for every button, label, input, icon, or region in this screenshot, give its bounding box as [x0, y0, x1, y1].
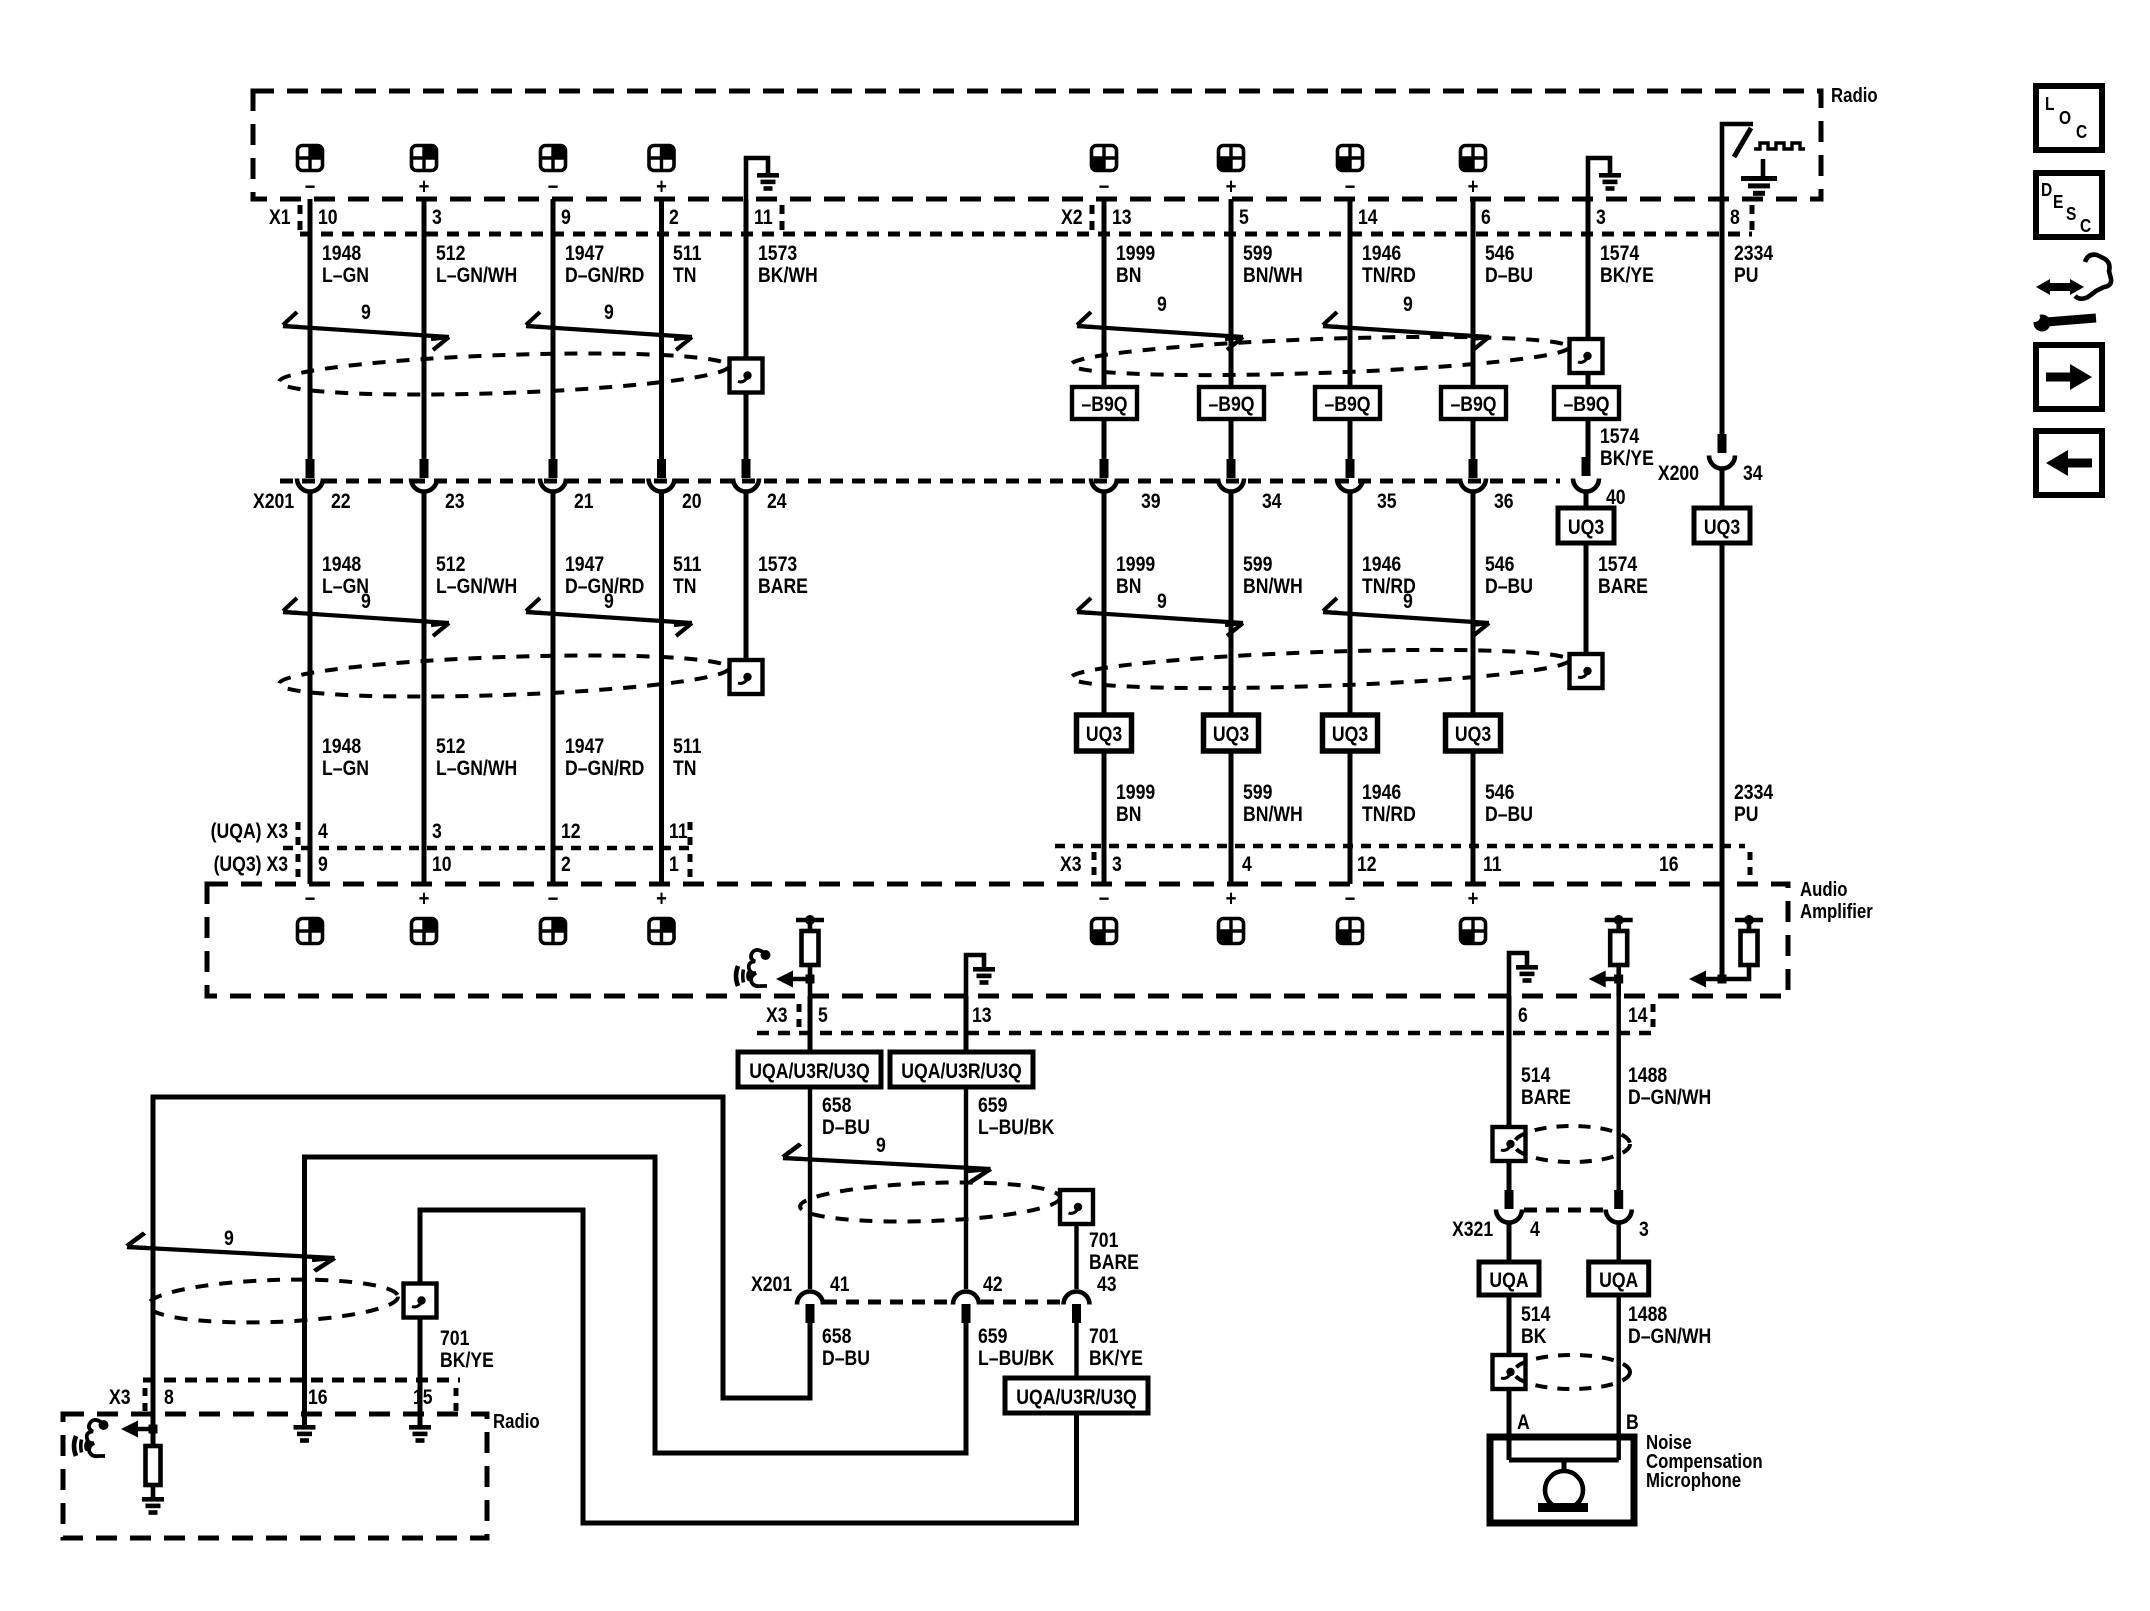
- svg-text:3: 3: [1639, 1218, 1649, 1242]
- svg-text:35: 35: [1377, 490, 1397, 514]
- twisted label 9: [361, 590, 371, 614]
- svg-text:O: O: [2059, 108, 2071, 129]
- wire 514 to X321: [1507, 1161, 1512, 1190]
- shield square on 514 upper: [1493, 1127, 1526, 1161]
- Radio box dashed border: [253, 91, 1821, 199]
- shield drain square row1 left: [730, 359, 763, 393]
- wire 1946 TN/RD mid: [1348, 493, 1353, 884]
- wire 1999 BN mid: [1102, 493, 1107, 884]
- svg-text:13: 13: [1112, 206, 1132, 230]
- speaker pin icon X1-3: [412, 146, 437, 171]
- svg-text:16: 16: [1659, 853, 1679, 877]
- svg-text:1573: 1573: [758, 553, 797, 577]
- wire 658 mid: [808, 1087, 812, 1289]
- svg-text:1999: 1999: [1116, 553, 1155, 577]
- right arrow box: [2036, 345, 2102, 409]
- svg-text:X201: X201: [751, 1273, 792, 1297]
- X3 bottom separator: [797, 1004, 802, 1030]
- svg-text:11: 11: [669, 820, 688, 844]
- svg-text:39: 39: [1141, 490, 1161, 514]
- svg-text:+: +: [1226, 176, 1237, 200]
- svg-text:TN: TN: [673, 264, 696, 288]
- shield ellipse row1 left: [278, 347, 729, 401]
- svg-text:D–BU: D–BU: [1485, 803, 1533, 827]
- svg-text:512: 512: [436, 242, 465, 266]
- amp element pin 16 (2334 PU input): [1689, 915, 1763, 988]
- X3 bottom pin numbers: [818, 1004, 1648, 1028]
- Radio label: [1831, 84, 1878, 107]
- bottom left X3 row dotted line: [143, 1378, 460, 1383]
- svg-text:9: 9: [604, 590, 614, 614]
- svg-text:1999: 1999: [1116, 781, 1155, 805]
- svg-text:1488: 1488: [1628, 1064, 1667, 1088]
- svg-text:TN/RD: TN/RD: [1362, 803, 1416, 827]
- svg-text:−: −: [1099, 176, 1110, 200]
- svg-text:14: 14: [1628, 1004, 1648, 1028]
- X201 pin numbers: [331, 486, 1626, 514]
- twisted pair 658/659: [783, 1144, 991, 1182]
- svg-text:1946: 1946: [1362, 242, 1401, 266]
- svg-text:X3: X3: [766, 1004, 788, 1028]
- wire 2334 PU upper: [1720, 199, 1725, 437]
- svg-text:BK: BK: [1521, 1325, 1546, 1349]
- wire 512 L-GN/WH upper: [422, 199, 427, 460]
- wire 1573 BK/WH upper: [744, 199, 749, 460]
- svg-text:5: 5: [1239, 206, 1249, 230]
- svg-text:9: 9: [224, 1227, 234, 1251]
- X1 row end separator: [780, 205, 785, 232]
- svg-text:6: 6: [1481, 206, 1491, 230]
- svg-text:+: +: [1226, 888, 1237, 912]
- X321 label: [1452, 1218, 1493, 1242]
- svg-text:1948: 1948: [322, 242, 361, 266]
- UQA box on 514: [1479, 1262, 1539, 1295]
- (UQA) row separators: [298, 822, 690, 845]
- svg-text:659: 659: [978, 1325, 1008, 1349]
- svg-text:1574: 1574: [1600, 242, 1639, 266]
- right X3 label: [1060, 853, 1082, 877]
- X2 separator: [1090, 205, 1095, 232]
- svg-text:8: 8: [164, 1386, 174, 1410]
- wire 2334 PU mid: [1720, 468, 1725, 884]
- svg-text:(UQ3) X3: (UQ3) X3: [214, 853, 289, 877]
- svg-text:BN: BN: [1116, 264, 1141, 288]
- svg-text:D: D: [2041, 180, 2052, 201]
- svg-text:659: 659: [978, 1094, 1008, 1118]
- svg-text:L–GN/WH: L–GN/WH: [436, 264, 517, 288]
- switch to ground with pulse signal (radio X2-8): [1722, 124, 1805, 200]
- svg-text:12: 12: [1357, 853, 1377, 877]
- twisted label 9: [1403, 293, 1413, 317]
- X201 bottom dashed segments: [824, 1300, 1062, 1305]
- shield drain square row2 right: [1570, 654, 1603, 688]
- X321 stubs and cups: [1505, 1190, 1514, 1209]
- svg-text:L–GN/WH: L–GN/WH: [436, 575, 517, 599]
- shield square on 514 lower: [1493, 1355, 1526, 1389]
- twisted pair symbol row2 pair4: [1323, 598, 1489, 636]
- UQ3 box on wire 1574: [1558, 508, 1614, 543]
- UQA/U3R/U3Q box on 658: [738, 1052, 881, 1087]
- svg-text:546: 546: [1485, 553, 1515, 577]
- svg-text:1946: 1946: [1362, 781, 1401, 805]
- twisted pair symbol row2 pair1: [283, 598, 449, 636]
- svg-text:+: +: [419, 176, 430, 200]
- speaker pin icon X2-13: [1092, 146, 1117, 171]
- shield ellipse row2 left: [278, 649, 729, 703]
- svg-text:4: 4: [1530, 1218, 1540, 1242]
- handset icon amp: [736, 950, 771, 986]
- wire 1946 TN/RD upper: [1348, 199, 1353, 460]
- X200 connector: [1658, 434, 1763, 485]
- X2 pin numbers: [1112, 206, 1740, 230]
- X201-42 cup and stub: [953, 1292, 979, 1305]
- LOC box: [2036, 86, 2102, 150]
- svg-text:PU: PU: [1734, 264, 1758, 288]
- wire 1488 lower: [1616, 1295, 1620, 1460]
- ground symbol radio X1-11: [746, 158, 779, 200]
- label 659 L-BU/BK lower: [978, 1325, 1054, 1371]
- ground symbol radio X2-3: [1588, 158, 1621, 200]
- right X3 end separator: [1748, 852, 1753, 878]
- wrench and arrow icon: [2030, 255, 2111, 332]
- twisted pair symbol row1 pair4: [1323, 312, 1489, 350]
- X201 dashed row line: [280, 479, 1560, 484]
- svg-text:4: 4: [1242, 853, 1252, 877]
- (UQA) X3 row label: [211, 820, 289, 844]
- wire 599 BN/WH upper: [1229, 199, 1234, 460]
- X3 label bottom left: [109, 1386, 131, 1410]
- label 658 D-BU lower: [822, 1325, 870, 1371]
- svg-text:701: 701: [440, 1327, 470, 1351]
- svg-text:701: 701: [1089, 1229, 1119, 1253]
- wire 701 route to radio X3-15: [420, 1210, 1077, 1523]
- svg-text:658: 658: [822, 1325, 852, 1349]
- svg-text:D–BU: D–BU: [822, 1347, 870, 1371]
- svg-text:11: 11: [1483, 853, 1502, 877]
- wire 1947 D-GN/RD mid: [551, 493, 556, 884]
- shield ellipse 514/1488 lower: [1514, 1355, 1630, 1389]
- amp speaker icons: [298, 919, 323, 944]
- svg-text:UQ3: UQ3: [1568, 516, 1604, 540]
- X3 separator bottom left: [143, 1388, 148, 1412]
- svg-text:511: 511: [673, 242, 702, 266]
- svg-text:BK/YE: BK/YE: [1600, 264, 1654, 288]
- svg-text:UQ3: UQ3: [1332, 723, 1368, 747]
- X201-43 cup and stub: [1064, 1292, 1090, 1305]
- svg-text:UQA/U3R/U3Q: UQA/U3R/U3Q: [749, 1060, 869, 1084]
- svg-text:BN/WH: BN/WH: [1243, 803, 1303, 827]
- X2 row end separator: [1750, 205, 1755, 232]
- svg-text:20: 20: [682, 490, 702, 514]
- wire 658 route to radio X3-8: [153, 1097, 810, 1424]
- Radio label bottom left: [493, 1410, 540, 1433]
- svg-text:L–GN: L–GN: [322, 757, 369, 781]
- Noise Compensation Microphone box: [1490, 1437, 1634, 1523]
- svg-text:C: C: [2076, 122, 2087, 143]
- svg-text:+: +: [1468, 176, 1479, 200]
- svg-text:9: 9: [361, 301, 371, 325]
- svg-text:X3: X3: [1060, 853, 1082, 877]
- svg-text:1946: 1946: [1362, 553, 1401, 577]
- wire 1948 L-GN upper: [308, 199, 313, 460]
- (UQA) X3 pin numbers: [318, 820, 688, 844]
- DESC box: [2036, 173, 2102, 237]
- svg-text:−: −: [548, 176, 559, 200]
- wire labels row 2: [322, 553, 369, 599]
- handset icon radio: [74, 1420, 109, 1456]
- svg-text:9: 9: [876, 1134, 886, 1158]
- polarity marks top row: [305, 176, 1479, 200]
- X3 bottom end separator: [1651, 1004, 1656, 1030]
- svg-text:BARE: BARE: [1089, 1251, 1139, 1275]
- X3 pins 8 16 15: [164, 1386, 433, 1410]
- wire 1947 D-GN/RD upper: [551, 199, 556, 460]
- svg-text:BN: BN: [1116, 803, 1141, 827]
- wire 514 to UQA: [1507, 1224, 1512, 1262]
- twisted pair 658/659 bottom left: [127, 1233, 335, 1271]
- wire 1573 BARE mid: [744, 493, 749, 661]
- speaker pin icon X2-5: [1219, 146, 1244, 171]
- svg-text:X3: X3: [109, 1386, 131, 1410]
- svg-text:C: C: [2080, 216, 2091, 237]
- svg-text:UQA/U3R/U3Q: UQA/U3R/U3Q: [901, 1060, 1021, 1084]
- svg-text:X1: X1: [269, 206, 291, 230]
- svg-text:UQ3: UQ3: [1213, 723, 1249, 747]
- svg-text:12: 12: [561, 820, 581, 844]
- (UQ3) row separators: [298, 854, 690, 878]
- svg-text:14: 14: [1358, 206, 1378, 230]
- left arrow box: [2036, 431, 2102, 495]
- amp polarity marks: [305, 888, 1479, 912]
- svg-text:599: 599: [1243, 553, 1273, 577]
- svg-text:41: 41: [830, 1273, 850, 1297]
- Audio Amplifier label: [1800, 878, 1873, 923]
- wire 658 upper: [808, 996, 813, 1052]
- svg-text:1488: 1488: [1628, 1303, 1667, 1327]
- svg-text:1573: 1573: [758, 242, 797, 266]
- svg-text:10: 10: [432, 853, 452, 877]
- svg-text:Microphone: Microphone: [1646, 1469, 1741, 1492]
- svg-text:5: 5: [818, 1004, 828, 1028]
- svg-text:UQA/U3R/U3Q: UQA/U3R/U3Q: [1016, 1386, 1136, 1410]
- svg-text:546: 546: [1485, 781, 1515, 805]
- svg-text:1947: 1947: [565, 553, 604, 577]
- label 1488 D-GN/WH upper: [1628, 1064, 1711, 1110]
- svg-text:D–BU: D–BU: [1485, 575, 1533, 599]
- twisted label 9: [604, 301, 614, 325]
- svg-text:Audio: Audio: [1800, 878, 1848, 901]
- svg-text:L–GN/WH: L–GN/WH: [436, 757, 517, 781]
- twisted label 9: [1157, 293, 1167, 317]
- svg-text:BN/WH: BN/WH: [1243, 264, 1303, 288]
- wire 1488 to UQA: [1616, 1224, 1620, 1262]
- amp mic element pin 14: [1589, 915, 1633, 996]
- amp ground pin 13: [966, 955, 995, 996]
- shield drain square row2 left: [730, 660, 763, 694]
- (UQ3) X3 row label: [214, 853, 289, 877]
- svg-text:3: 3: [432, 206, 442, 230]
- wire 514 lower: [1507, 1295, 1512, 1356]
- svg-text:–B9Q: –B9Q: [1324, 393, 1370, 417]
- svg-text:E: E: [2053, 192, 2063, 213]
- svg-text:1947: 1947: [565, 735, 604, 759]
- svg-text:546: 546: [1485, 242, 1515, 266]
- wire 1574 BK/YE upper: [1586, 199, 1591, 458]
- svg-text:L–BU/BK: L–BU/BK: [978, 1116, 1054, 1140]
- svg-text:TN/RD: TN/RD: [1362, 264, 1416, 288]
- svg-text:–B9Q: –B9Q: [1081, 393, 1127, 417]
- label 514 BARE: [1521, 1064, 1571, 1110]
- svg-text:Radio: Radio: [1831, 84, 1878, 107]
- svg-text:D–GN/RD: D–GN/RD: [565, 757, 644, 781]
- pin numbers 41 42 43: [830, 1273, 1117, 1297]
- X1 label: [269, 206, 291, 230]
- wire 701 BK/YE to option box: [1074, 1323, 1078, 1378]
- svg-text:42: 42: [983, 1273, 1003, 1297]
- wire 701 BARE stub: [1074, 1224, 1078, 1289]
- shield drain square on 701 BK/YE: [404, 1284, 437, 1318]
- label 701 BK/YE lower: [1089, 1325, 1143, 1371]
- X201 pins stubs and cups: [306, 459, 315, 478]
- svg-text:8: 8: [1730, 206, 1740, 230]
- X201 label: [253, 490, 294, 514]
- svg-text:+: +: [656, 888, 667, 912]
- X2 label: [1061, 206, 1083, 230]
- wire 511 TN mid: [659, 493, 664, 884]
- twisted label 9: [604, 590, 614, 614]
- speaker pin icon X1-10: [298, 146, 323, 171]
- svg-text:9: 9: [1403, 590, 1413, 614]
- -B9Q option boxes: [1072, 387, 1137, 419]
- label 658 D-BU upper: [822, 1094, 870, 1140]
- svg-text:9: 9: [604, 301, 614, 325]
- svg-text:UQ3: UQ3: [1704, 516, 1740, 540]
- svg-text:D–GN/WH: D–GN/WH: [1628, 1086, 1711, 1110]
- svg-text:3: 3: [432, 820, 442, 844]
- right X3 pin numbers: [1112, 853, 1679, 877]
- svg-text:16: 16: [308, 1386, 328, 1410]
- wire 514 upper: [1507, 996, 1512, 1128]
- svg-text:23: 23: [445, 490, 465, 514]
- X201 label bottom: [751, 1273, 792, 1297]
- twisted pair symbol row1 pair3: [1077, 312, 1243, 350]
- svg-text:34: 34: [1743, 462, 1763, 486]
- svg-text:512: 512: [436, 553, 465, 577]
- svg-text:658: 658: [822, 1094, 852, 1118]
- svg-text:1574: 1574: [1600, 425, 1639, 449]
- wire 1574 BARE mid: [1584, 493, 1589, 655]
- svg-text:TN: TN: [673, 575, 696, 599]
- shield ellipse row1 right: [1071, 330, 1570, 381]
- wire labels row 1: [322, 242, 369, 288]
- X1 pin numbers: [318, 206, 773, 230]
- svg-text:UQA: UQA: [1489, 1269, 1528, 1293]
- svg-text:−: −: [305, 888, 316, 912]
- svg-text:24: 24: [767, 490, 787, 514]
- svg-text:1999: 1999: [1116, 242, 1155, 266]
- wire 659 route to radio X3-16: [305, 1157, 967, 1453]
- UQA box on 1488: [1589, 1262, 1649, 1295]
- wire 1948 L-GN mid: [308, 493, 313, 884]
- UQA/U3R/U3Q box on 701: [1005, 1378, 1148, 1413]
- svg-text:599: 599: [1243, 242, 1273, 266]
- wire 546 D-BU upper: [1471, 199, 1476, 460]
- svg-text:X321: X321: [1452, 1218, 1493, 1242]
- svg-text:BK/YE: BK/YE: [1089, 1347, 1143, 1371]
- label 701 BK/YE bottom left: [440, 1327, 494, 1373]
- svg-text:15: 15: [413, 1386, 433, 1410]
- svg-text:4: 4: [318, 820, 328, 844]
- wire 659 upper: [964, 996, 969, 1052]
- ground radio X3-16: [294, 1414, 316, 1443]
- wire 514 into mic: [1507, 1389, 1512, 1460]
- twisted label 9: [1403, 590, 1413, 614]
- twisted pair symbol row1 pair2: [526, 312, 692, 350]
- UQ3 boxes row B: [1077, 715, 1132, 751]
- wire 2334 PU inside amp: [1720, 884, 1725, 981]
- svg-text:9: 9: [318, 853, 328, 877]
- X201-41 cup and stub: [797, 1292, 823, 1305]
- svg-text:BK/YE: BK/YE: [1600, 447, 1654, 471]
- shield ellipse 658/659: [799, 1178, 1060, 1225]
- svg-text:514: 514: [1521, 1064, 1551, 1088]
- svg-text:X201: X201: [253, 490, 294, 514]
- wire label 1574 BK/YE above X201-40: [1600, 425, 1654, 471]
- svg-text:X2: X2: [1061, 206, 1083, 230]
- twisted label 9: [361, 301, 371, 325]
- svg-text:13: 13: [972, 1004, 992, 1028]
- svg-text:43: 43: [1097, 1273, 1117, 1297]
- label 659 L-BU/BK upper: [978, 1094, 1054, 1140]
- twisted pair symbol row2 pair3: [1077, 598, 1243, 636]
- svg-text:1: 1: [669, 853, 679, 877]
- shield drain square row1 right: [1570, 339, 1603, 373]
- svg-text:D–BU: D–BU: [1485, 264, 1533, 288]
- svg-text:−: −: [305, 176, 316, 200]
- svg-text:L: L: [2045, 94, 2054, 115]
- svg-text:11: 11: [754, 206, 773, 230]
- svg-text:6: 6: [1518, 1004, 1528, 1028]
- svg-text:B: B: [1626, 1411, 1639, 1435]
- svg-text:BK/YE: BK/YE: [440, 1349, 494, 1373]
- svg-text:3: 3: [1112, 853, 1122, 877]
- svg-text:BARE: BARE: [1598, 575, 1648, 599]
- svg-text:1947: 1947: [565, 242, 604, 266]
- svg-text:Amplifier: Amplifier: [1800, 900, 1873, 923]
- svg-text:–B9Q: –B9Q: [1208, 393, 1254, 417]
- svg-text:BN: BN: [1116, 575, 1141, 599]
- X3 bottom label: [766, 1004, 788, 1028]
- bottom left Radio box: [63, 1414, 487, 1538]
- label 1488 D-GN/WH lower: [1628, 1303, 1711, 1349]
- wire 659 mid: [964, 1087, 968, 1289]
- svg-text:+: +: [656, 176, 667, 200]
- amp ground pin 6: [1509, 953, 1538, 996]
- wire 599 BN/WH mid: [1229, 493, 1234, 884]
- wire 512 L-GN/WH mid: [422, 493, 427, 884]
- svg-text:A: A: [1517, 1411, 1530, 1435]
- svg-text:+: +: [1468, 888, 1479, 912]
- svg-text:1948: 1948: [322, 553, 361, 577]
- svg-text:9: 9: [1403, 293, 1413, 317]
- shield drain square 701: [1060, 1190, 1093, 1224]
- twisted label 9: [876, 1134, 886, 1158]
- twisted pair symbol row2 pair2: [526, 598, 692, 636]
- svg-text:514: 514: [1521, 1303, 1551, 1327]
- svg-text:1948: 1948: [322, 735, 361, 759]
- svg-text:21: 21: [574, 490, 594, 514]
- svg-text:–B9Q: –B9Q: [1450, 393, 1496, 417]
